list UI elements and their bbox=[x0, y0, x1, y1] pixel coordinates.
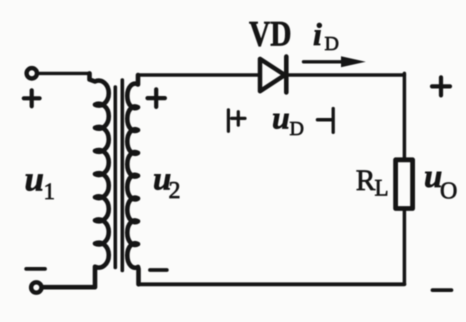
svg-text:R: R bbox=[356, 165, 376, 197]
svg-text:2: 2 bbox=[169, 178, 181, 204]
svg-text:VD: VD bbox=[249, 14, 292, 54]
svg-text:u: u bbox=[25, 160, 44, 199]
svg-text:O: O bbox=[440, 179, 457, 205]
svg-text:1: 1 bbox=[44, 179, 56, 204]
svg-text:u: u bbox=[272, 100, 290, 136]
svg-text:D: D bbox=[325, 33, 339, 55]
svg-text:D: D bbox=[290, 118, 304, 140]
svg-text:L: L bbox=[375, 176, 389, 201]
svg-text:i: i bbox=[313, 16, 322, 52]
